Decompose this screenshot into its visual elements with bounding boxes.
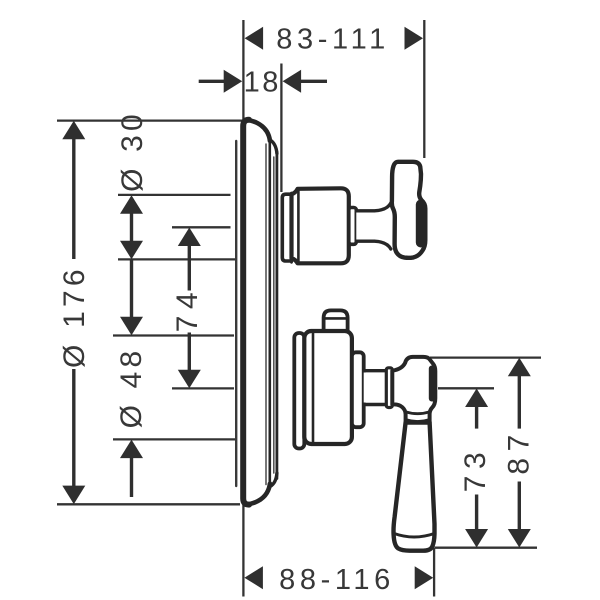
arrowhead 73 up	[465, 389, 488, 408]
escutcheon top shoulder	[246, 120, 270, 141]
extension line left (plate back / 83-111 & 18 & 88-116 reference)	[242, 20, 244, 597]
extension line 73/87 bottom (lever tip)	[435, 547, 538, 549]
extension line 73 top (lower valve axis right)	[438, 387, 494, 389]
dimension shaft 18 right tail	[300, 80, 327, 83]
thermostat flange seam	[290, 193, 293, 262]
arrowhead 74 up	[178, 228, 201, 247]
lever grip cap seam	[394, 534, 434, 538]
escutcheon face line	[268, 140, 271, 485]
dimension shaft 18 left tail	[199, 80, 225, 83]
arrowhead 87 up	[508, 358, 531, 377]
lever hub	[392, 357, 435, 423]
dimension shaft D30	[130, 213, 133, 242]
escutcheon face inner line	[265, 144, 267, 485]
volume valve cup seam	[312, 332, 315, 444]
svg-text:Ø 48: Ø 48	[115, 347, 148, 429]
arrowhead D30 up	[120, 195, 143, 214]
arrowhead 73 down	[465, 529, 488, 548]
volume valve cup	[304, 331, 352, 444]
svg-text:Ø 176: Ø 176	[58, 265, 91, 368]
arrowhead D176 up	[62, 121, 85, 140]
volume valve stem	[364, 373, 387, 403]
svg-text:74: 74	[171, 286, 204, 332]
extension line 74 bottom (lower valve axis)	[172, 387, 234, 389]
extension line D30 top	[118, 194, 231, 196]
escutcheon back rim	[235, 141, 237, 486]
extension line D48 bottom	[113, 438, 236, 440]
thermostat handle side-arm (dark)	[416, 200, 426, 248]
arrowhead D176 down	[62, 486, 85, 505]
thermostat stem ring	[349, 208, 357, 245]
svg-text:Ø 30: Ø 30	[116, 110, 149, 192]
escutcheon dome inner line	[273, 157, 275, 473]
svg-text:88-116: 88-116	[279, 564, 395, 596]
thermostat cup	[292, 188, 349, 263]
volume valve nub	[324, 310, 348, 333]
dimension shaft D176	[72, 138, 75, 259]
thermostat stem	[356, 204, 391, 248]
dimension shaft 87	[518, 376, 521, 429]
arrowhead 18 right	[283, 70, 302, 93]
thermostat cross-handle arm	[392, 162, 425, 258]
svg-text:87: 87	[503, 428, 536, 474]
thermostat stem bottom line	[356, 241, 391, 249]
volume valve flange	[294, 333, 304, 449]
arrowhead 88-116 left	[244, 566, 263, 589]
arrowhead D30 down	[120, 241, 143, 260]
arrowhead 74 down	[178, 370, 201, 389]
arrowhead 18 left	[224, 70, 243, 93]
escutcheon dome bottom transition	[270, 473, 277, 487]
thermostat stem top line	[356, 203, 391, 211]
volume valve ring	[352, 352, 364, 427]
extension line 83-111 right (handle reference)	[423, 20, 425, 158]
extension line 74 top (upper valve axis)	[172, 226, 231, 228]
escutcheon dome line	[275, 152, 278, 479]
extension line D30 bottom	[118, 258, 235, 260]
escutcheon outer edge	[243, 120, 249, 505]
thermostat cup seam	[297, 189, 300, 263]
svg-text:18: 18	[244, 66, 281, 98]
svg-text:73: 73	[459, 446, 492, 492]
extension line D176 bottom	[57, 503, 240, 505]
lever hub seam upper	[406, 412, 430, 414]
arrowhead 83-111 right	[405, 27, 424, 50]
dimension shaft 73	[475, 407, 478, 429]
arrowhead 83-111 left	[245, 27, 264, 50]
extension line 18-right (sleeve flange reference)	[280, 64, 282, 193]
lever hub seam lower	[406, 420, 430, 422]
dimension shaft D48 lower	[130, 458, 133, 497]
arrowhead 88-116 right	[415, 566, 434, 589]
escutcheon dome top transition	[270, 140, 277, 154]
lever grip	[394, 423, 435, 551]
volume valve stem washer	[386, 368, 392, 408]
extension line 88-116 right (lever reference)	[433, 548, 435, 597]
svg-text:83-111: 83-111	[276, 23, 390, 55]
dimension shaft 74	[188, 246, 191, 291]
volume valve nub seam	[324, 317, 348, 320]
arrowhead 87 down	[508, 529, 531, 548]
dimension shaft D30-D48 link	[130, 259, 133, 317]
lever hub dark edge	[429, 366, 436, 402]
extension line D176 top	[57, 119, 243, 121]
extension line 87 top (lever hub top)	[430, 356, 541, 358]
arrowhead D48 up (below line)	[120, 440, 143, 459]
thermostat sleeve flange	[282, 194, 291, 261]
escutcheon bottom shoulder	[246, 484, 270, 505]
extension line D48 top	[113, 334, 234, 336]
arrowhead D48 down (above line)	[120, 317, 143, 336]
